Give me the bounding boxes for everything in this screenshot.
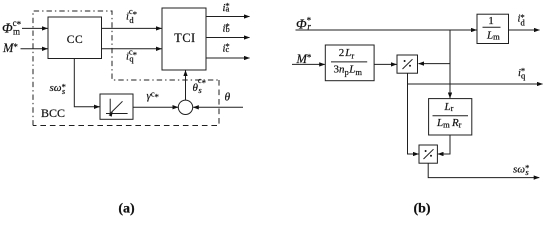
wire summer to TCI (theta_s)	[185, 71, 187, 101]
wire TCI output i_c	[206, 57, 250, 59]
label s omega_s^* (b)	[513, 163, 529, 177]
svg-text:sω*s: sω*s	[513, 163, 529, 177]
svg-text:Φc*m: Φc*m	[2, 18, 22, 36]
label theta_s^c*	[193, 75, 206, 95]
wire M* to gain block	[292, 63, 325, 65]
label s omega_s^* (a)	[50, 81, 66, 96]
BCC dashed boundary (left, top, notch)	[33, 11, 219, 126]
label i_c^*	[223, 41, 230, 54]
svg-text:TCI: TCI	[174, 31, 195, 45]
label Phi_r^*	[296, 16, 312, 33]
svg-text:BCC: BCC	[41, 106, 65, 120]
label i_a^*	[223, 1, 230, 14]
label i_b^*	[223, 21, 230, 34]
wire CC to TCI (i_q)	[102, 48, 162, 50]
block Lr/LmRr	[429, 99, 472, 135]
svg-text:Lm: Lm	[486, 30, 500, 42]
label gamma^c*	[147, 89, 159, 103]
svg-text:(b): (b)	[413, 202, 430, 217]
wire i_d output	[509, 29, 540, 31]
label i_q^*	[518, 65, 526, 80]
label theta	[225, 92, 231, 104]
wire gain block to divider 1	[374, 63, 396, 65]
label i_q^c*	[126, 47, 137, 64]
svg-text:1: 1	[488, 15, 494, 27]
label M* input (b)	[296, 52, 312, 66]
wire gamma to summing junction	[133, 106, 178, 108]
label Phi_m^c*	[2, 18, 22, 36]
wire CC to TCI (i_d)	[102, 27, 162, 29]
wire CC bottom to ramp block	[74, 59, 99, 107]
svg-text:i*c: i*c	[223, 41, 230, 54]
wire TCI output i_b	[206, 37, 250, 39]
svg-text:LmRr: LmRr	[436, 117, 462, 129]
svg-text:θ: θ	[225, 92, 231, 104]
wire Lr/LmRr block to divider 2	[438, 135, 450, 154]
wire Phi_r to 1/Lm block	[296, 29, 477, 31]
block 1/Lm	[477, 14, 509, 43]
label i_d^*	[518, 12, 526, 28]
block CC	[48, 17, 102, 59]
label i_d^c*	[126, 6, 137, 25]
svg-text:i*b: i*b	[223, 21, 230, 34]
wire branch from Phi line down to Lr/LmRr block	[449, 30, 451, 98]
caption (b)	[413, 202, 430, 217]
BCC dashed boundary (right, bottom)	[33, 80, 219, 126]
wire theta input	[193, 106, 243, 108]
wire right input into divider 1	[419, 63, 451, 65]
block ramp limiter	[100, 94, 133, 119]
summing junction	[178, 100, 192, 114]
wire TCI output i_a	[206, 16, 250, 18]
wire M* input	[21, 48, 48, 50]
svg-text:CC: CC	[67, 34, 84, 46]
svg-text:sω*s: sω*s	[50, 81, 66, 96]
wire s omega output	[428, 163, 539, 177]
block 2Lr/3npLm	[325, 45, 374, 81]
svg-text:Lr: Lr	[444, 101, 454, 113]
wire divider 1 output to i_q	[408, 73, 543, 84]
svg-text:i*q: i*q	[518, 65, 526, 80]
divider block 2	[419, 145, 437, 163]
label BCC	[41, 106, 65, 120]
svg-text:i*a: i*a	[223, 1, 230, 14]
label M* input (a)	[2, 41, 18, 55]
svg-text:(a): (a)	[118, 202, 135, 217]
divider block 1	[397, 55, 418, 73]
wire Phi_m input	[22, 27, 48, 29]
block TCI	[162, 8, 206, 70]
caption (a)	[118, 202, 135, 217]
wire divider 1 branch down to divider 2	[408, 84, 419, 154]
